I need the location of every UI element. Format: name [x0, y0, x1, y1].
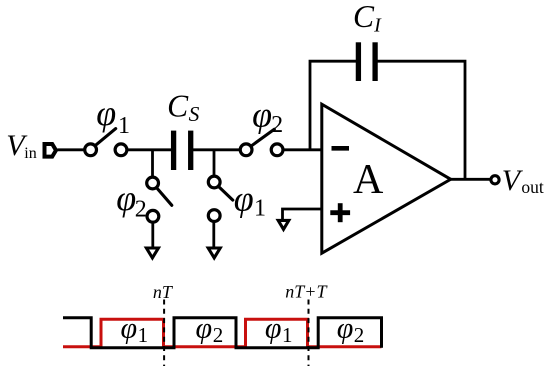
- svg-text:φ: φ: [121, 312, 138, 345]
- svg-text:φ: φ: [196, 312, 213, 345]
- svg-text:φ: φ: [96, 93, 116, 133]
- svg-text:φ: φ: [265, 312, 282, 345]
- svg-text:2: 2: [271, 112, 283, 138]
- svg-text:I: I: [373, 15, 382, 37]
- svg-text:out: out: [521, 177, 544, 197]
- svg-text:2: 2: [213, 323, 224, 347]
- svg-text:1: 1: [138, 323, 149, 347]
- svg-text:φ: φ: [252, 94, 272, 134]
- svg-text:C: C: [353, 0, 375, 34]
- svg-text:φ: φ: [337, 312, 354, 345]
- svg-text:φ: φ: [116, 178, 136, 218]
- svg-text:2: 2: [354, 323, 365, 347]
- svg-text:nT+T: nT+T: [285, 282, 328, 302]
- svg-text:1: 1: [118, 113, 130, 139]
- svg-text:1: 1: [282, 323, 293, 347]
- svg-text:2: 2: [135, 197, 147, 223]
- svg-text:S: S: [189, 102, 200, 126]
- svg-text:nT: nT: [153, 282, 174, 302]
- svg-text:1: 1: [254, 196, 266, 222]
- svg-text:A: A: [353, 157, 384, 203]
- svg-text:in: in: [24, 145, 36, 162]
- svg-text:φ: φ: [234, 178, 254, 218]
- svg-text:C: C: [167, 88, 189, 123]
